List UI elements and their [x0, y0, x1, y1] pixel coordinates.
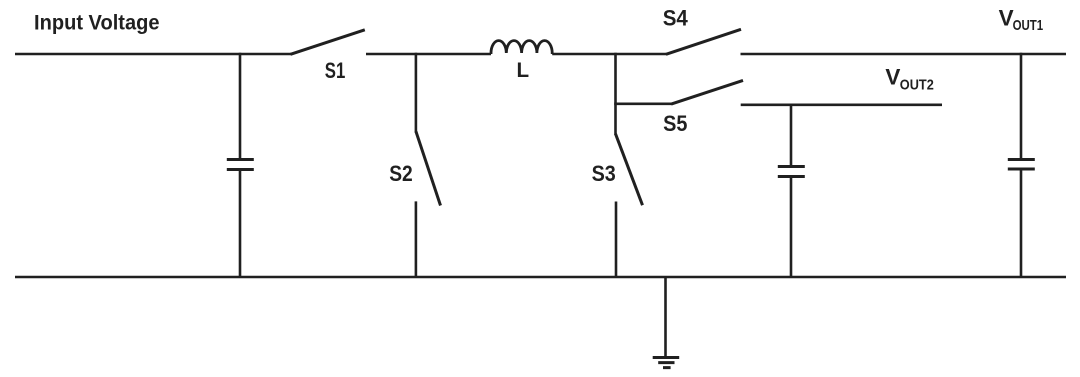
wire input top rail [15, 53, 292, 56]
svg-text:S5: S5 [663, 111, 687, 136]
capacitor C-out1 plates [1008, 160, 1035, 170]
wire output capacitor 2 top lead [790, 104, 793, 166]
switch S1 blade [291, 30, 365, 55]
wire ground bottom rail [15, 276, 1066, 279]
wire VOUT2 rail [741, 104, 942, 107]
wire S2 upper branch [415, 53, 418, 133]
wire output capacitor 1 top lead [1020, 53, 1023, 158]
wire output capacitor 1 bottom lead [1020, 171, 1023, 278]
ground [653, 358, 680, 368]
wire inductor to S4 pivot [552, 53, 667, 56]
svg-text:S4: S4 [663, 6, 688, 31]
switch S5 blade [671, 80, 743, 104]
svg-text:V: V [999, 5, 1014, 30]
wire output capacitor 2 bottom lead [790, 178, 793, 277]
svg-text:OUT1: OUT1 [1013, 17, 1044, 34]
svg-text:OUT2: OUT2 [900, 76, 934, 93]
switch S2 blade [416, 131, 441, 205]
svg-text:Input Voltage: Input Voltage [34, 12, 160, 35]
switch S3 blade [616, 134, 643, 205]
wire input capacitor bottom lead [239, 171, 242, 277]
capacitor C-out2 plates [778, 167, 805, 177]
capacitor C-in plates [227, 160, 254, 170]
svg-text:V: V [885, 64, 900, 89]
wire input capacitor top lead [239, 53, 242, 158]
wire S2 lower branch [415, 201, 418, 277]
svg-text:L: L [517, 59, 530, 82]
svg-text:S2: S2 [389, 161, 413, 186]
switch S4 blade [666, 29, 741, 54]
wire S5 takeoff [614, 103, 672, 106]
wire VOUT1 rail [741, 53, 1067, 56]
wire S1 to inductor [366, 53, 491, 56]
wire S3 upper branch [614, 53, 617, 135]
svg-text:S3: S3 [592, 161, 616, 186]
inductor L [491, 41, 552, 54]
wire ground stem [664, 277, 667, 356]
wire S3 lower branch [615, 202, 618, 278]
svg-text:S1: S1 [325, 58, 346, 83]
